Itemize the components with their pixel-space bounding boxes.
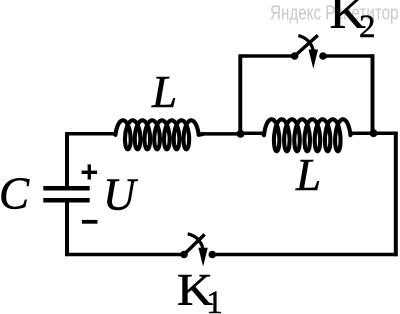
- switch K1 left contact: [180, 251, 188, 259]
- switch K1 arrow shaft: [188, 234, 203, 248]
- svg-text:1: 1: [206, 285, 223, 314]
- wire L2 to node B: [349, 131, 374, 135]
- wire right vertical: [394, 132, 398, 256]
- polarity plus: [82, 164, 98, 179]
- svg-text:L: L: [151, 67, 177, 117]
- switch K1 lever: [184, 234, 205, 254]
- switch K2 lever: [295, 35, 318, 56]
- switch K2 arrow shaft: [298, 36, 313, 50]
- switch K2 arrow head: [309, 50, 318, 69]
- switch K1 right contact: [209, 251, 217, 259]
- wire bottom right segment: [212, 253, 397, 257]
- wire between L1 and node A: [202, 132, 241, 136]
- switch K2 left contact: [291, 52, 299, 60]
- branch top wire left segment: [239, 54, 295, 58]
- wire left vertical upper: [65, 132, 69, 187]
- inductor L1: [114, 120, 204, 149]
- junction node A: [237, 130, 245, 138]
- svg-text:L: L: [295, 150, 321, 200]
- branch top wire right segment: [323, 54, 374, 58]
- branch right vertical wire: [371, 54, 375, 133]
- wire node A to L2: [241, 131, 267, 135]
- wire left vertical lower: [65, 202, 69, 256]
- switch K1 arrow head: [198, 248, 207, 267]
- polarity minus: [82, 220, 98, 224]
- branch left vertical wire: [238, 54, 242, 134]
- inductor L2: [263, 119, 352, 151]
- svg-text:U: U: [103, 170, 138, 220]
- wire node B to right corner: [374, 131, 398, 135]
- switch K2 right contact: [319, 52, 327, 60]
- junction node B: [370, 129, 378, 137]
- svg-text:2: 2: [359, 9, 376, 45]
- wire top-left horizontal: [65, 132, 116, 136]
- capacitor C: [43, 188, 89, 200]
- wire bottom left segment: [65, 253, 184, 257]
- svg-text:C: C: [0, 169, 30, 219]
